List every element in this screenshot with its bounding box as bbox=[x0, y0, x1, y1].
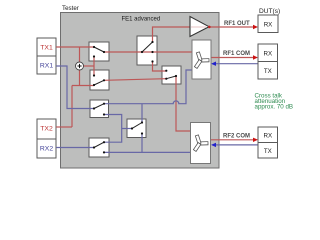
svg-text:RX: RX bbox=[263, 133, 272, 140]
switch S3 body bbox=[90, 70, 109, 90]
wire RF2 COM out bbox=[211, 139, 256, 141]
arrow RF1 COM return bbox=[211, 62, 216, 66]
wire S4 top-right to RF1 circulator with jump bbox=[104, 70, 192, 104]
wire RF1 COM out bbox=[211, 57, 256, 59]
wire combiner bottom leg bbox=[79, 70, 81, 86]
arrow RF2 COM return bbox=[211, 143, 216, 147]
switch S3 contacts and lever bbox=[93, 74, 105, 86]
wire amplifier output RF1 OUT bbox=[209, 26, 256, 28]
svg-text:RF1 COM: RF1 COM bbox=[223, 51, 250, 57]
switch S5 contacts and lever bbox=[131, 121, 143, 134]
svg-text:TX2: TX2 bbox=[40, 126, 53, 133]
port box TX2 bbox=[37, 119, 56, 139]
wire S3 to S7 bottom-left bbox=[104, 79, 166, 81]
DUT box TX b bbox=[258, 61, 278, 79]
wire RF2 COM return bbox=[213, 144, 258, 146]
wire node S1 bottom to S3 top bbox=[93, 57, 95, 76]
switch S2 contacts and lever bbox=[141, 41, 154, 63]
switch S7 contacts and lever bbox=[165, 70, 177, 80]
switch S4 body bbox=[90, 100, 109, 118]
wire TX1 to S1 bbox=[56, 46, 94, 48]
wire RX1 out bbox=[56, 66, 94, 109]
switch S4 contacts and lever bbox=[93, 103, 105, 116]
svg-text:TX: TX bbox=[264, 68, 272, 75]
switch S1 body bbox=[89, 42, 109, 61]
wire TX2 vertical riser bbox=[71, 86, 73, 128]
switch S7 body bbox=[162, 66, 181, 84]
svg-text:RX: RX bbox=[264, 22, 273, 29]
wire S4 bottom-right distribution bbox=[104, 115, 122, 143]
svg-text:FE1 advanced: FE1 advanced bbox=[122, 16, 161, 22]
wire TX2 node horizontal to S3 bbox=[72, 85, 94, 87]
amplifier A1 bbox=[190, 17, 211, 37]
svg-text:RX2: RX2 bbox=[40, 146, 53, 153]
wire S5 bottom drop bbox=[141, 134, 143, 153]
switch S6 body bbox=[89, 138, 109, 157]
combiner plus bbox=[76, 62, 84, 70]
wire S2 top to amplifier bbox=[153, 27, 191, 42]
svg-text:RX1: RX1 bbox=[40, 63, 53, 70]
DUT box RX a bbox=[258, 15, 278, 33]
svg-text:DUT(s): DUT(s) bbox=[259, 8, 280, 15]
switch S6 contacts and lever bbox=[93, 141, 105, 153]
DUT box RX c bbox=[258, 127, 278, 143]
wire S1 to S2 to circulator U1 bbox=[104, 51, 192, 53]
svg-text:Tester: Tester bbox=[62, 5, 79, 12]
port box RX1 bbox=[37, 56, 56, 74]
svg-text:RF1 OUT: RF1 OUT bbox=[224, 21, 250, 27]
port box RX2 bbox=[37, 139, 56, 158]
arrow RF1 OUT bbox=[253, 25, 258, 29]
wire RX2 to S6 bbox=[56, 147, 94, 149]
circulator U2 RF2 bbox=[191, 123, 211, 164]
DUT box TX c bbox=[258, 143, 278, 159]
svg-text:TX1: TX1 bbox=[40, 45, 53, 52]
wire stub to S5 left bbox=[122, 128, 132, 130]
switch S1 contacts and lever bbox=[93, 46, 105, 58]
DUT box RX b bbox=[258, 44, 278, 61]
svg-text:RX: RX bbox=[263, 51, 272, 58]
wire S5 top tap riser bbox=[141, 104, 143, 123]
switch S5 body bbox=[127, 119, 146, 138]
wire S2 bottom to S7 top-left bbox=[153, 62, 167, 72]
arrow RF2 COM bbox=[253, 138, 258, 142]
wire TX2 to riser bbox=[56, 126, 72, 128]
wire S6 bottom-right to RF2 circulator bbox=[104, 151, 191, 153]
svg-text:approx. 70 dB: approx. 70 dB bbox=[255, 104, 294, 111]
wire RF1 COM return bbox=[213, 63, 258, 65]
svg-text:RF2 COM: RF2 COM bbox=[223, 134, 250, 140]
wire TX1 branch down to combiner bbox=[79, 47, 81, 62]
wire combiner output stub bbox=[83, 65, 94, 67]
arrow RF1 COM bbox=[253, 55, 258, 59]
tester enclosure bbox=[61, 13, 220, 169]
svg-text:TX: TX bbox=[264, 148, 272, 155]
switch S2 body bbox=[137, 36, 157, 65]
wire S7 down to RF2 circulator bbox=[176, 76, 191, 131]
port box TX1 bbox=[37, 38, 56, 56]
circulator U1 RF1 bbox=[192, 40, 211, 79]
